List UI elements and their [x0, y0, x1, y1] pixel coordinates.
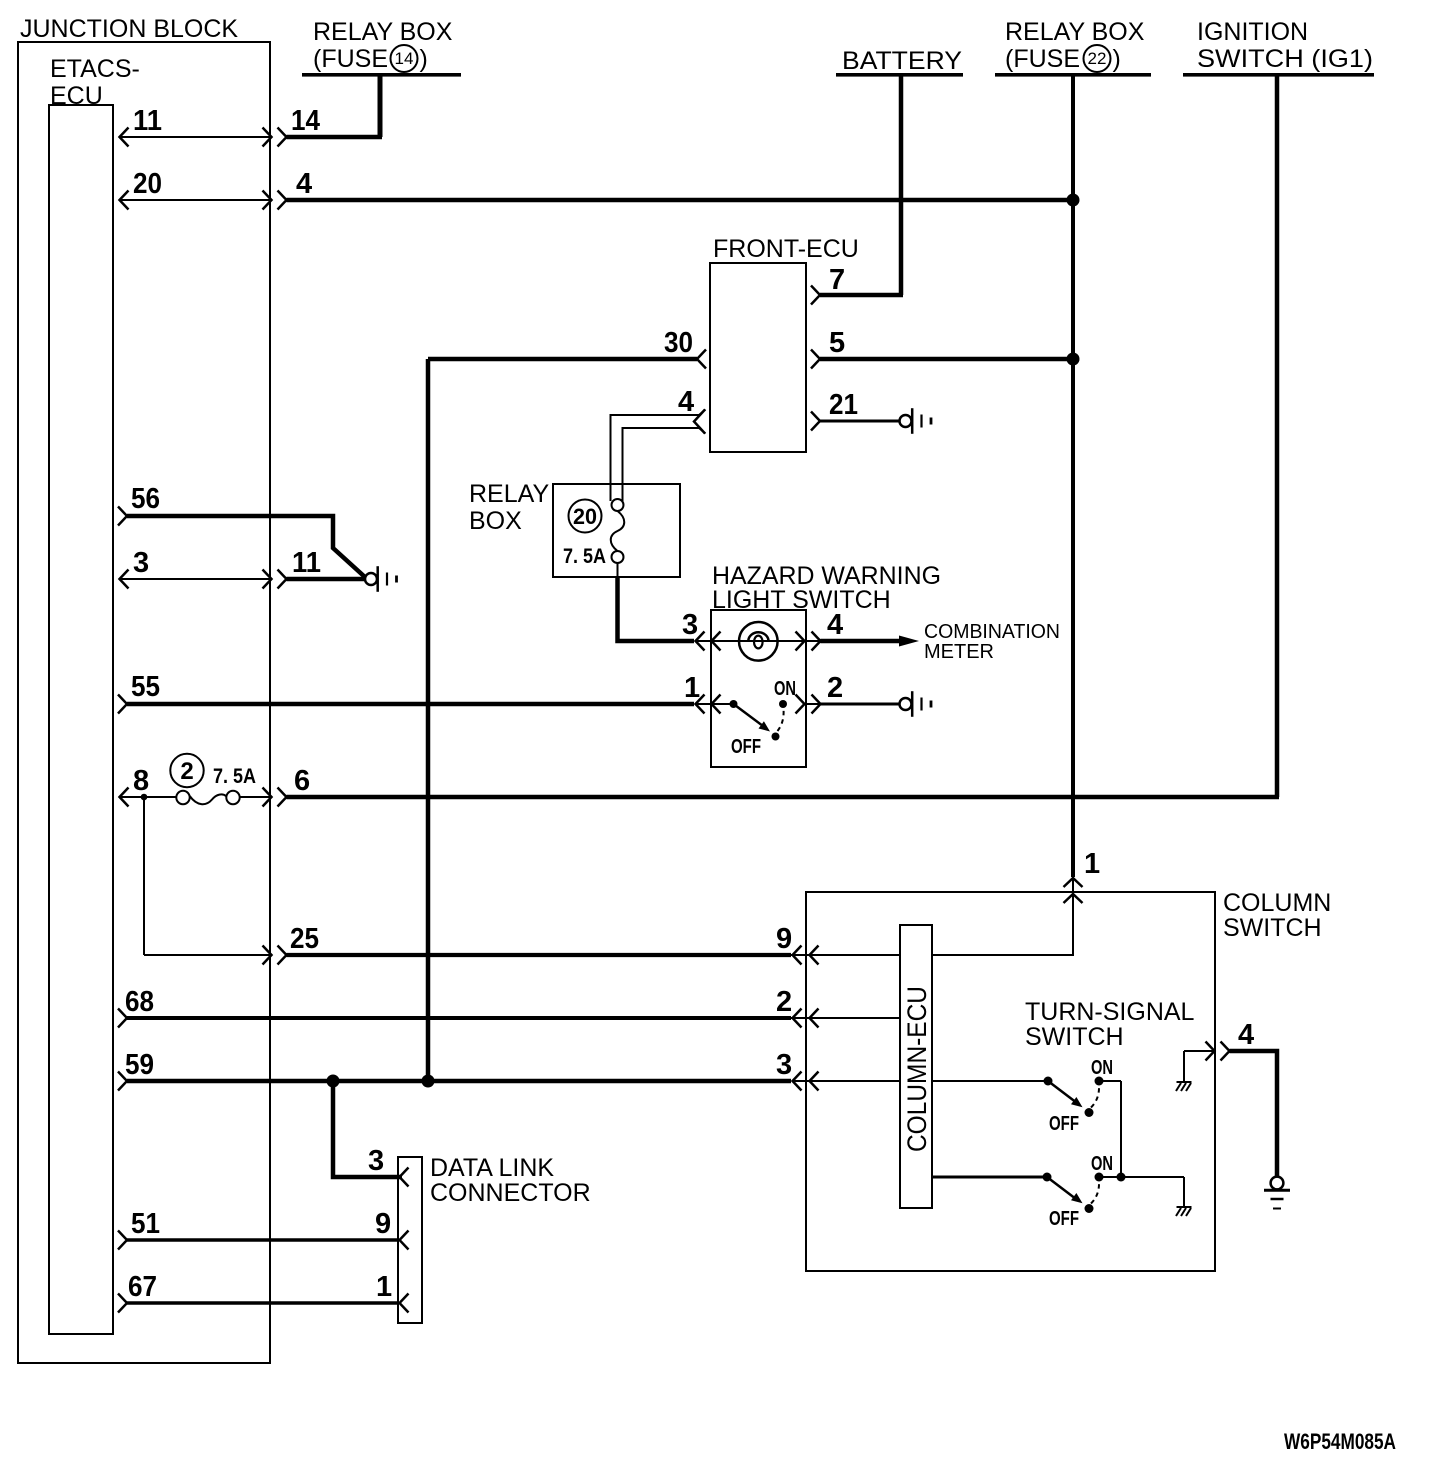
svg-text:3: 3: [776, 1049, 792, 1081]
svg-text:20: 20: [133, 168, 162, 200]
svg-text:9: 9: [776, 923, 792, 955]
svg-text:14: 14: [395, 49, 414, 68]
svg-text:51: 51: [131, 1208, 160, 1240]
svg-text:BOX: BOX: [469, 507, 522, 535]
svg-text:3: 3: [368, 1145, 384, 1177]
svg-text:BATTERY: BATTERY: [842, 47, 962, 75]
svg-text:TURN-SIGNAL: TURN-SIGNAL: [1025, 998, 1195, 1026]
svg-text:RELAY: RELAY: [469, 480, 549, 508]
svg-text:DATA LINK: DATA LINK: [430, 1154, 554, 1182]
svg-text:55: 55: [131, 671, 160, 703]
svg-text:11: 11: [292, 547, 321, 579]
svg-text:CONNECTOR: CONNECTOR: [430, 1179, 591, 1207]
svg-text:67: 67: [128, 1271, 157, 1303]
svg-text:30: 30: [664, 327, 693, 359]
svg-text:4: 4: [678, 386, 694, 418]
svg-text:6: 6: [294, 765, 310, 797]
svg-text:ECU: ECU: [50, 82, 103, 110]
svg-text:4: 4: [296, 168, 312, 200]
svg-text:7: 7: [829, 264, 845, 296]
svg-text:W6P54M085A: W6P54M085A: [1284, 1429, 1396, 1454]
svg-text:4: 4: [827, 609, 843, 641]
svg-text:RELAY BOX: RELAY BOX: [313, 18, 453, 46]
svg-text:5: 5: [829, 327, 845, 359]
svg-text:1: 1: [684, 672, 700, 704]
svg-text:2: 2: [776, 986, 792, 1018]
svg-text:11: 11: [133, 105, 162, 137]
svg-text:2: 2: [827, 672, 843, 704]
svg-text:68: 68: [125, 986, 154, 1018]
svg-text:METER: METER: [924, 641, 994, 663]
svg-text:ETACS-: ETACS-: [50, 55, 140, 83]
svg-text:(FUSE: (FUSE: [313, 45, 388, 73]
svg-text:SWITCH: SWITCH: [1223, 914, 1322, 942]
svg-text:OFF: OFF: [1049, 1208, 1079, 1230]
svg-text:20: 20: [573, 504, 597, 529]
svg-text:OFF: OFF: [731, 736, 761, 758]
svg-text:COLUMN: COLUMN: [1223, 889, 1331, 917]
svg-text:25: 25: [290, 923, 319, 955]
svg-text:14: 14: [291, 105, 320, 137]
svg-text:1: 1: [1084, 848, 1100, 880]
svg-text:9: 9: [375, 1208, 391, 1240]
svg-text:22: 22: [1088, 49, 1107, 68]
svg-text:): ): [1113, 45, 1121, 73]
svg-text:3: 3: [682, 609, 698, 641]
svg-text:7. 5A: 7. 5A: [213, 765, 256, 788]
svg-text:59: 59: [125, 1049, 154, 1081]
svg-text:2: 2: [180, 758, 193, 785]
svg-text:8: 8: [133, 765, 149, 797]
svg-text:SWITCH (IG1): SWITCH (IG1): [1197, 45, 1373, 73]
svg-text:SWITCH: SWITCH: [1025, 1023, 1124, 1051]
svg-text:COLUMN-ECU: COLUMN-ECU: [902, 986, 932, 1152]
svg-text:1: 1: [376, 1271, 392, 1303]
svg-text:): ): [420, 45, 428, 73]
svg-text:ON: ON: [774, 678, 796, 700]
svg-text:56: 56: [131, 483, 160, 515]
svg-text:IGNITION: IGNITION: [1197, 18, 1308, 46]
svg-text:RELAY BOX: RELAY BOX: [1005, 18, 1145, 46]
svg-text:OFF: OFF: [1049, 1113, 1079, 1135]
svg-text:(FUSE: (FUSE: [1005, 45, 1080, 73]
svg-text:4: 4: [1238, 1019, 1254, 1051]
svg-text:FRONT-ECU: FRONT-ECU: [713, 235, 859, 263]
svg-text:3: 3: [133, 547, 149, 579]
svg-text:ON: ON: [1091, 1057, 1113, 1079]
svg-text:21: 21: [829, 389, 858, 421]
svg-text:COMBINATION: COMBINATION: [924, 621, 1060, 643]
svg-text:ON: ON: [1091, 1153, 1113, 1175]
svg-text:JUNCTION BLOCK: JUNCTION BLOCK: [20, 15, 238, 43]
svg-text:7. 5A: 7. 5A: [563, 545, 606, 568]
